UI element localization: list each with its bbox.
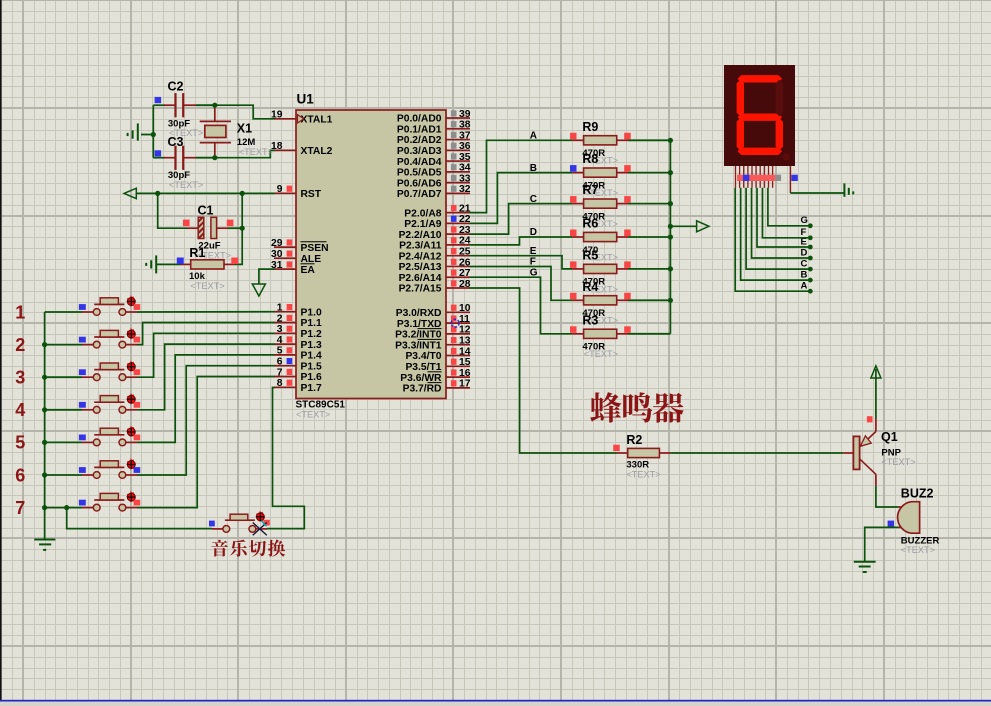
R8 right terminal marker xyxy=(624,165,631,172)
push button 3 xyxy=(45,361,141,381)
R4 right terminal marker xyxy=(624,293,631,300)
earth ground at button bus xyxy=(34,540,55,550)
svg-text:F: F xyxy=(801,227,807,238)
display segment F xyxy=(737,80,744,117)
svg-text:1: 1 xyxy=(15,302,25,322)
U1 pin 22 P2.1/A9 xyxy=(404,214,470,230)
R3 left terminal marker xyxy=(570,326,577,333)
wire C1 right branch / R1 vertical xyxy=(234,193,242,264)
svg-text:2: 2 xyxy=(277,313,283,324)
U1 pin 25 P2.4/A12 xyxy=(399,246,471,262)
svg-text:P1.5: P1.5 xyxy=(301,361,322,372)
svg-text:<TEXT>: <TEXT> xyxy=(901,545,935,555)
resistor R7 470R xyxy=(572,199,670,208)
wire display segment E to node xyxy=(757,188,809,247)
svg-text:10: 10 xyxy=(459,303,471,314)
U1 pin 18 XTAL2 xyxy=(271,141,333,157)
svg-text:P0.0/AD0: P0.0/AD0 xyxy=(397,114,442,125)
svg-text:P1.2: P1.2 xyxy=(301,329,322,340)
U1 pin 13 P3.3/INT1 xyxy=(395,336,471,352)
svg-text:D: D xyxy=(530,227,537,238)
push button music switch xyxy=(209,511,270,533)
svg-text:<TEXT>: <TEXT> xyxy=(296,410,330,420)
U1 pin 4 P1.3 xyxy=(274,335,322,351)
wire XTAL1 net: C2/X1 to pin 19 xyxy=(215,105,275,119)
wire music button left branch xyxy=(67,508,212,529)
svg-text:EA: EA xyxy=(301,265,316,276)
svg-text:P3.7/RD: P3.7/RD xyxy=(403,384,442,395)
svg-text:9: 9 xyxy=(277,184,283,195)
wire display segment B to node xyxy=(741,188,809,280)
label buzzer title xyxy=(590,392,683,423)
resistor R3 470R xyxy=(572,329,670,338)
Q1 emitter terminal marker xyxy=(867,416,873,422)
wire button 1 to pin 1 xyxy=(137,311,275,313)
U1 pin 32 P0.7/AD7 xyxy=(397,184,471,200)
U1 pin 28 P2.7/A15 xyxy=(399,279,471,295)
buzzer BUZ2 xyxy=(898,502,920,534)
R4 left terminal marker xyxy=(570,293,577,300)
ground symbol at R1 xyxy=(146,255,168,273)
svg-text:4: 4 xyxy=(277,335,283,346)
U1 pin 10 P3.0/RXD xyxy=(396,303,471,319)
node F dot xyxy=(808,235,813,240)
R6 right terminal marker xyxy=(624,230,631,237)
svg-text:6: 6 xyxy=(15,465,25,485)
wire C1 left branch xyxy=(158,193,188,228)
svg-text:BUZ2: BUZ2 xyxy=(901,486,934,500)
push button 7 xyxy=(45,491,141,511)
push button 6 xyxy=(45,458,141,478)
junction bus row 3 xyxy=(42,375,47,380)
svg-text:7: 7 xyxy=(15,498,25,518)
junction bus row 5 xyxy=(42,440,47,445)
7-segment display body xyxy=(724,65,795,166)
junction bus R8 xyxy=(668,170,673,175)
U1 pin 19 XTAL1 xyxy=(271,110,333,126)
svg-text:R2: R2 xyxy=(626,433,642,447)
svg-text:15: 15 xyxy=(459,357,471,368)
U1 pin 21 P2.0/A8 xyxy=(404,203,470,219)
svg-text:P1.0: P1.0 xyxy=(301,307,322,318)
svg-text:P1.3: P1.3 xyxy=(301,340,322,351)
svg-text:P2.2/A10: P2.2/A10 xyxy=(399,230,442,241)
svg-text:P0.1/AD1: P0.1/AD1 xyxy=(397,124,442,135)
power terminal arrow xyxy=(871,366,881,378)
U1 XTAL1 clock input marker xyxy=(298,115,304,123)
push button 5 xyxy=(45,426,141,446)
wire display common to ground xyxy=(790,192,844,194)
svg-text:12: 12 xyxy=(459,325,471,336)
svg-text:R6: R6 xyxy=(582,217,598,231)
overline for pin 17 xyxy=(428,382,442,384)
wire net E: pin to resistor xyxy=(470,256,573,269)
wire Q1 collector to buzzer xyxy=(876,486,899,507)
R7 right terminal marker xyxy=(624,196,631,203)
push button 1 xyxy=(45,295,141,315)
svg-text:11: 11 xyxy=(459,314,470,325)
wire left vertical C2-C3 bus xyxy=(152,105,154,158)
svg-text:R9: R9 xyxy=(582,120,598,134)
svg-text:<TEXT>: <TEXT> xyxy=(881,457,915,467)
junction bus row 6 xyxy=(42,472,47,477)
svg-text:1: 1 xyxy=(277,303,283,314)
svg-text:A: A xyxy=(530,131,537,142)
svg-text:4: 4 xyxy=(15,400,25,420)
U1 pin 26 P2.5/A13 xyxy=(399,257,471,273)
svg-text:X1: X1 xyxy=(237,122,252,136)
output terminal arrow xyxy=(697,221,709,232)
svg-text:R7: R7 xyxy=(582,183,598,197)
junction bus R5 xyxy=(668,266,673,271)
svg-text:470R: 470R xyxy=(582,342,605,353)
junction ground/C2C3 xyxy=(151,132,156,137)
svg-text:U1: U1 xyxy=(297,92,315,107)
R5 right terminal marker xyxy=(624,261,631,268)
svg-text:34: 34 xyxy=(459,163,471,174)
svg-text:37: 37 xyxy=(459,130,471,141)
wire resistor output bus xyxy=(669,140,671,333)
svg-text:P1.4: P1.4 xyxy=(301,351,322,362)
svg-text:21: 21 xyxy=(459,203,471,214)
U1 pin 39 P0.0/AD0 xyxy=(397,109,471,125)
U1 pin 15 P3.5/T1 xyxy=(405,357,470,373)
U1 pin 14 P3.4/T0 xyxy=(405,346,470,362)
node A dot xyxy=(808,289,813,294)
node B dot xyxy=(808,278,813,283)
svg-text:P0.3/AD3: P0.3/AD3 xyxy=(397,146,442,157)
svg-text:29: 29 xyxy=(271,238,283,249)
svg-text:33: 33 xyxy=(459,173,471,184)
wire net C: pin to resistor xyxy=(470,204,573,235)
U1 pin 12 P3.2/INT0 xyxy=(395,325,471,341)
wire net G: pin to resistor xyxy=(470,277,573,334)
junction X1/C2 xyxy=(212,103,217,108)
wire button 4 to pin 4 xyxy=(137,344,275,410)
node E dot xyxy=(808,245,813,250)
resistor R8 470R xyxy=(572,168,670,177)
svg-text:F: F xyxy=(530,257,536,268)
display decimal point xyxy=(783,153,790,160)
U1 pin 17 P3.7/RD xyxy=(403,379,471,395)
window left border xyxy=(0,0,2,701)
crystal X1 xyxy=(200,105,231,158)
junction bus R9 xyxy=(668,138,673,143)
junction bus row 4 xyxy=(42,407,47,412)
svg-text:C3: C3 xyxy=(168,135,184,149)
svg-text:C1: C1 xyxy=(198,203,214,217)
display pins xyxy=(736,166,791,193)
svg-text:26: 26 xyxy=(459,257,471,268)
node C dot xyxy=(808,267,813,272)
U1 pin 2 P1.1 xyxy=(274,313,322,329)
ground symbol at crystal caps xyxy=(128,123,154,140)
svg-text:22: 22 xyxy=(459,214,471,225)
svg-text:<TEXT>: <TEXT> xyxy=(626,469,660,479)
node D dot xyxy=(808,256,813,261)
resistor R6 470 xyxy=(572,232,670,241)
svg-text:Q1: Q1 xyxy=(881,430,898,444)
svg-text:P2.4/A12: P2.4/A12 xyxy=(399,251,442,262)
C1 right terminal marker xyxy=(227,220,234,227)
svg-text:RST: RST xyxy=(301,189,322,200)
U1 pin 36 P0.3/AD3 xyxy=(397,141,471,157)
svg-text:24: 24 xyxy=(459,236,471,247)
wire Q1 emitter to power xyxy=(875,369,877,419)
junction RST/C1 left xyxy=(155,191,160,196)
svg-text:8: 8 xyxy=(277,378,283,389)
U1 pin 23 P2.2/A10 xyxy=(399,225,471,241)
U1 pin 16 P3.6/WR xyxy=(400,368,470,384)
U1 pin 31 EA xyxy=(271,260,315,276)
display segment G xyxy=(738,114,783,121)
resistor R5 470R xyxy=(572,264,670,273)
svg-text:17: 17 xyxy=(459,379,471,390)
U1 pin 6 P1.5 xyxy=(274,357,322,373)
wire button 3 to pin 3 xyxy=(137,333,275,377)
C1 left terminal marker xyxy=(183,220,190,227)
display segment B xyxy=(776,80,783,117)
svg-text:25: 25 xyxy=(459,246,471,257)
junction bus R7 xyxy=(668,201,673,206)
wire net A: pin to resistor xyxy=(470,140,573,212)
svg-text:P2.7/A15: P2.7/A15 xyxy=(399,284,442,295)
U1 pin 1 P1.0 xyxy=(274,303,322,319)
R8 left terminal marker xyxy=(570,165,577,172)
svg-text:P0.6/AD6: P0.6/AD6 xyxy=(397,178,442,189)
junction bus R4 xyxy=(668,298,673,303)
svg-text:G: G xyxy=(530,267,538,278)
svg-text:B: B xyxy=(530,163,537,174)
display segment D xyxy=(738,148,783,155)
svg-text:14: 14 xyxy=(459,346,471,357)
svg-text:P3.4/T0: P3.4/T0 xyxy=(405,351,441,362)
label music switch xyxy=(211,539,285,556)
svg-text:A: A xyxy=(801,281,808,292)
transistor Q1 PNP xyxy=(843,419,876,486)
svg-text:B: B xyxy=(801,270,808,281)
svg-text:35: 35 xyxy=(459,152,471,163)
wire net B: pin to resistor xyxy=(470,173,573,224)
RST input terminal arrow xyxy=(124,188,136,198)
svg-text:6: 6 xyxy=(277,357,283,368)
svg-text:<TEXT>: <TEXT> xyxy=(190,281,224,291)
junction RST/C1 right xyxy=(240,191,245,196)
svg-text:P1.6: P1.6 xyxy=(301,372,322,383)
BUZ2 terminal marker xyxy=(888,521,895,528)
svg-text:<TEXT>: <TEXT> xyxy=(169,180,203,190)
wire net F: pin to resistor xyxy=(470,267,573,301)
resistor R1 10k xyxy=(168,260,234,269)
svg-text:P2.0/A8: P2.0/A8 xyxy=(404,208,441,219)
resistor R2 330R xyxy=(617,448,843,457)
U1 pin 7 P1.6 xyxy=(274,367,322,383)
svg-text:R4: R4 xyxy=(582,280,598,294)
wire display segment D to node xyxy=(752,188,809,258)
node G dot xyxy=(808,223,813,228)
R7 left terminal marker xyxy=(570,196,577,203)
svg-text:P1.7: P1.7 xyxy=(301,383,322,394)
U1 pin 29 PSEN xyxy=(271,238,329,254)
C3 terminal marker xyxy=(155,150,162,156)
U1 pin 3 P1.2 xyxy=(274,324,322,340)
U1 pin 9 RST xyxy=(274,184,322,200)
wire buzzer to ground xyxy=(865,527,899,561)
junction C1 right xyxy=(240,226,245,231)
svg-text:P0.7/AD7: P0.7/AD7 xyxy=(397,189,442,200)
junction music branch xyxy=(64,505,69,510)
wire button 7 to pin 7 xyxy=(137,377,275,508)
U1 pin 37 P0.2/AD2 xyxy=(397,130,471,146)
wire EA to ground xyxy=(259,269,275,284)
junction bus R6 xyxy=(668,234,673,239)
U1 pin 27 P2.6/A14 xyxy=(399,268,471,284)
origin marker at pin 11 xyxy=(451,319,459,327)
svg-text:P0.4/AD4: P0.4/AD4 xyxy=(397,157,442,168)
svg-text:D: D xyxy=(801,247,808,258)
svg-text:C: C xyxy=(801,259,808,270)
U1 pin 34 P0.5/AD5 xyxy=(397,163,471,179)
wire display segment A to node xyxy=(735,188,808,291)
R3 right terminal marker xyxy=(624,326,631,333)
resistor R4 470R xyxy=(572,296,670,305)
junction bus row 2 xyxy=(42,342,47,347)
svg-text:3: 3 xyxy=(15,368,25,388)
svg-text:R5: R5 xyxy=(582,249,598,263)
svg-text:XTAL2: XTAL2 xyxy=(301,146,333,157)
svg-text:P0.5/AD5: P0.5/AD5 xyxy=(397,168,442,179)
svg-text:36: 36 xyxy=(459,141,471,152)
svg-text:39: 39 xyxy=(459,109,471,120)
wire button 6 to pin 6 xyxy=(137,366,275,475)
U1 pin 30 ALE xyxy=(271,249,321,265)
capacitor C2 xyxy=(164,93,215,117)
display segment E xyxy=(737,118,744,151)
ground symbol at display xyxy=(844,183,853,196)
wire button supply bus xyxy=(44,312,46,540)
window bottom edge xyxy=(0,700,991,702)
U1 pin 24 P2.3/A11 xyxy=(399,236,471,252)
U1 pin 5 P1.4 xyxy=(274,346,322,362)
svg-text:P3.0/RXD: P3.0/RXD xyxy=(396,308,442,319)
wire RST net xyxy=(136,192,274,194)
svg-text:ALE: ALE xyxy=(301,254,322,265)
push button 4 xyxy=(45,393,141,413)
U1 pin 33 P0.6/AD6 xyxy=(397,173,471,189)
svg-text:P1.1: P1.1 xyxy=(301,318,322,329)
svg-text:P2.1/A9: P2.1/A9 xyxy=(404,219,441,230)
svg-text:7: 7 xyxy=(277,367,283,378)
svg-text:R8: R8 xyxy=(582,152,598,166)
svg-text:5: 5 xyxy=(277,346,283,357)
wire button 5 to pin 5 xyxy=(137,355,275,443)
svg-text:P3.3/INT1: P3.3/INT1 xyxy=(395,340,442,351)
svg-text:2: 2 xyxy=(15,335,25,355)
svg-text:C: C xyxy=(530,194,537,205)
svg-text:R1: R1 xyxy=(189,246,205,260)
R1 left terminal marker xyxy=(177,258,184,265)
R6 left terminal marker xyxy=(570,230,577,237)
wire display segment F to node xyxy=(762,188,808,238)
display pin markers bar xyxy=(737,175,775,181)
svg-text:P2.6/A14: P2.6/A14 xyxy=(399,273,442,284)
wire XTAL2 net: C3/X1 to pin 18 xyxy=(215,150,275,157)
wire net D: pin to resistor xyxy=(470,237,573,245)
C2 terminal marker xyxy=(155,97,162,103)
R2 left terminal marker xyxy=(613,445,620,451)
svg-text:23: 23 xyxy=(459,225,471,236)
wire button 2 to pin 2 xyxy=(137,323,275,345)
overline for pin 12 xyxy=(418,328,442,330)
junction bus output xyxy=(668,224,673,229)
push button 2 xyxy=(45,328,141,348)
svg-text:PSEN: PSEN xyxy=(301,243,329,254)
svg-text:5: 5 xyxy=(15,433,25,453)
U1 pin 38 P0.1/AD1 xyxy=(397,120,471,136)
svg-text:P2.3/A11: P2.3/A11 xyxy=(399,241,442,252)
svg-text:<TEXT>: <TEXT> xyxy=(239,147,273,157)
wire music button to pin 8 xyxy=(267,388,304,529)
svg-text:16: 16 xyxy=(459,368,471,379)
R5 left terminal marker xyxy=(570,261,577,268)
svg-text:E: E xyxy=(530,246,537,257)
overline for pin 13 xyxy=(418,338,442,340)
earth ground at buzzer xyxy=(854,562,876,572)
wire net P2.7 to R2 xyxy=(470,288,618,453)
op chip U1 STC89C51 body xyxy=(296,110,446,399)
svg-text:32: 32 xyxy=(459,184,471,195)
music button X mark xyxy=(253,523,267,536)
svg-text:P2.5/A13: P2.5/A13 xyxy=(399,262,442,273)
wire to output terminal xyxy=(670,225,696,227)
overline for pin 16 xyxy=(428,371,442,373)
svg-text:30: 30 xyxy=(271,249,283,260)
wire display segment G to node xyxy=(768,188,809,226)
wire display segment C to node xyxy=(746,188,808,269)
junction bus row 7 xyxy=(42,505,47,510)
svg-text:XTAL1: XTAL1 xyxy=(301,115,333,126)
U1 pin 35 P0.4/AD4 xyxy=(397,152,471,168)
svg-text:R3: R3 xyxy=(582,313,598,327)
R9 left terminal marker xyxy=(570,133,577,140)
R1 right terminal marker xyxy=(231,258,238,265)
svg-text:28: 28 xyxy=(459,279,471,290)
svg-text:3: 3 xyxy=(277,324,283,335)
display segment C xyxy=(776,118,783,151)
U1 pin 11 P3.1/TXD xyxy=(397,314,470,330)
U1 pin 8 P1.7 xyxy=(274,378,322,394)
svg-text:27: 27 xyxy=(459,268,471,279)
R9 right terminal marker xyxy=(624,133,631,140)
svg-text:13: 13 xyxy=(459,336,471,347)
resistor R9 470R xyxy=(572,136,670,145)
capacitor C3 xyxy=(164,146,215,170)
junction X1/C3 xyxy=(212,155,217,160)
ground arrow at EA xyxy=(252,284,265,296)
svg-text:G: G xyxy=(801,215,808,226)
svg-text:C2: C2 xyxy=(168,80,184,94)
svg-text:38: 38 xyxy=(459,120,471,131)
svg-text:P0.2/AD2: P0.2/AD2 xyxy=(397,135,442,146)
display segment A xyxy=(738,75,783,82)
